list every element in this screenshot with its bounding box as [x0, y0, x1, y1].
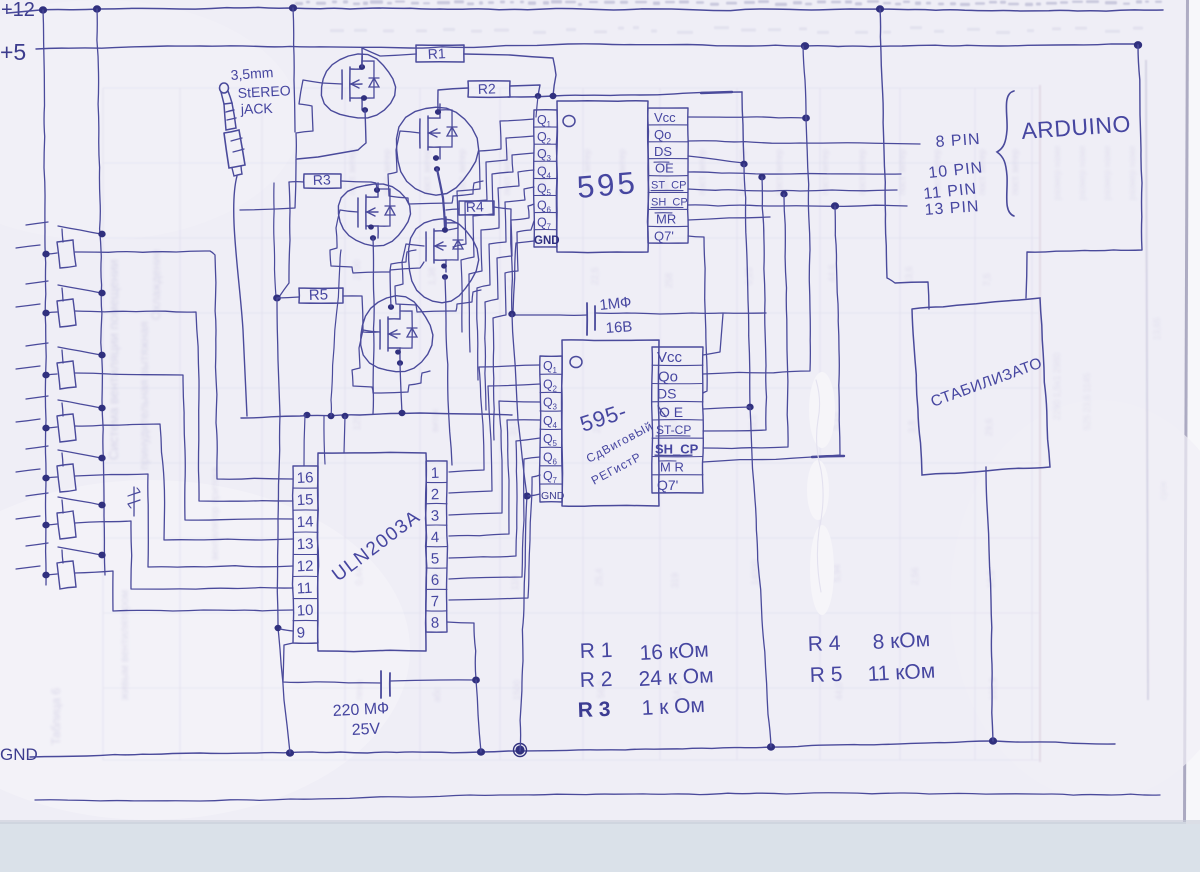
capacitor C1 1mF 16V	[586, 303, 588, 335]
svg-text:Q: Q	[543, 469, 553, 483]
wire +12 rail	[8, 7, 1163, 13]
svg-text:Q: Q	[537, 130, 547, 144]
junction Q2 source a	[433, 156, 438, 161]
wire U1 GND down	[513, 241, 534, 313]
junction unit 7 switch	[99, 552, 105, 558]
svg-text:220 МФ: 220 МФ	[332, 700, 389, 720]
svg-text:1МФ: 1МФ	[599, 294, 633, 314]
junction R5 left	[274, 295, 281, 301]
junction R1 node	[550, 93, 556, 98]
svg-text:Q: Q	[537, 164, 547, 178]
wire Q5 gate frame	[352, 330, 430, 393]
U3 left pin column 16..9	[293, 466, 319, 643]
svg-text:5: 5	[547, 188, 552, 197]
wire C2 to GND	[476, 680, 481, 752]
wire unit 2 to U3 pin 15	[75, 311, 293, 501]
resistor R1	[416, 45, 464, 62]
svg-text:8: 8	[431, 615, 440, 632]
junction Q4 source b	[442, 275, 447, 280]
wire U3 pin8 down	[447, 622, 476, 679]
junction on GND rail	[989, 738, 996, 744]
wire U1 Q5 staircase	[477, 187, 534, 380]
junction unit 7 bus A	[43, 572, 49, 578]
U1 right pin column	[648, 108, 689, 243]
svg-text:11: 11	[296, 580, 312, 598]
svg-text:вентилятор притока: вентилятор притока	[210, 467, 221, 560]
junction Q2 source b	[434, 167, 439, 172]
U3 right pin column 1..8	[426, 461, 448, 632]
wire U2 Q6 to ULN pin 6	[449, 457, 540, 579]
svg-text:3,5mm: 3,5mm	[230, 64, 274, 83]
wire left bus A	[43, 10, 46, 585]
junction unit 2 switch	[99, 290, 105, 296]
junction Q1 source a	[361, 96, 366, 101]
wire U1 Q3 staircase	[461, 153, 534, 332]
U2 pin-1 mark circle	[570, 357, 582, 368]
svg-text:1500: 1500	[512, 680, 522, 700]
svg-text:Q: Q	[537, 181, 547, 195]
wire U2 Q1 to ULN pin 1	[449, 365, 540, 472]
wire U2 Q4 to ULN pin 4	[449, 420, 540, 536]
wire Q1 drain up	[361, 48, 363, 67]
wire U2 GND stub	[528, 494, 540, 496]
wire Q4 source down	[445, 277, 452, 465]
wire R2 left to Q2 drain	[438, 88, 468, 112]
svg-text:Система вентиляции помещении: Система вентиляции помещении	[106, 260, 121, 460]
wire node to U1 Q1 pin	[536, 96, 538, 117]
junction on GND rail	[286, 750, 293, 756]
wire Q3 source to bus	[373, 238, 374, 414]
junction Q3 source a	[369, 225, 374, 229]
wire R2 right to node	[510, 85, 540, 96]
svg-text:R5: R5	[309, 286, 329, 304]
svg-text:размер нами: размер нами	[1102, 146, 1112, 200]
wire +12 down to Q1 frame	[293, 8, 295, 132]
transistor Q1 (MOSFET in circle)	[321, 54, 395, 118]
wire U1 ST_CP to Arduino 11PIN	[688, 189, 897, 191]
svg-text:Охлаждение: Охлаждение	[149, 249, 163, 320]
wire R5 left	[277, 297, 299, 298]
capacitor C2 220uF 25V	[380, 671, 382, 698]
U2 left pin column Q1-Q7,GND	[540, 356, 563, 502]
svg-text:пост. ветер: пост. ветер	[1010, 149, 1020, 195]
junction Q1 drain	[359, 65, 364, 70]
wire U2 Q3 to ULN pin 3	[449, 401, 540, 515]
junction on +5 rail	[801, 43, 808, 50]
wire Q1 frame to left	[240, 159, 296, 210]
connector output unit 1	[16, 222, 101, 268]
svg-text:MR: MR	[656, 211, 676, 226]
svg-text:DS: DS	[654, 144, 672, 159]
wire +5 to stabilizer	[1026, 45, 1142, 298]
wire Q3 gate frame	[330, 210, 416, 273]
wire GND rail	[30, 741, 1115, 757]
svg-text:6: 6	[547, 206, 552, 215]
svg-text:Q: Q	[543, 377, 553, 391]
svg-text:44,6: 44,6	[827, 264, 837, 282]
svg-text:Таблица 6: Таблица 6	[49, 688, 63, 745]
svg-text:R 4: R 4	[807, 632, 841, 656]
connector output unit 2	[16, 281, 101, 327]
svg-text:ST_CP: ST_CP	[651, 180, 686, 192]
wire U1 Q4 staircase	[469, 170, 534, 352]
svg-text:1 к Ом: 1 к Ом	[641, 694, 705, 720]
svg-text:258: 258	[664, 273, 674, 288]
svg-text:R3: R3	[313, 171, 332, 188]
wire DS node down	[744, 164, 750, 407]
junction C1 left	[509, 311, 515, 317]
wire R1 left	[362, 48, 416, 56]
svg-text:Q: Q	[537, 147, 547, 161]
svg-text:14: 14	[296, 513, 314, 531]
wire U2 Q5 to ULN pin 5	[449, 438, 540, 558]
svg-text:Q: Q	[537, 216, 547, 230]
connector output unit 5	[16, 446, 101, 492]
wire C1 left	[513, 314, 587, 316]
connector output unit 3	[16, 343, 101, 389]
svg-text:размер нами: размер нами	[1077, 146, 1087, 200]
svg-text:2700: 2700	[352, 260, 362, 280]
svg-text:8 кОм: 8 кОм	[872, 628, 931, 654]
wire Q1 source left	[297, 110, 366, 159]
wire unit 3 to U3 pin 14	[75, 373, 293, 520]
svg-text:13: 13	[296, 535, 314, 553]
svg-text:2,56: 2,56	[910, 567, 920, 585]
wire jack cable to source bus	[234, 176, 247, 416]
junction on source bus	[304, 412, 310, 417]
wire unit 5 to U3 pin 12	[75, 474, 293, 567]
wire U2 Vcc to C1	[703, 314, 723, 355]
junction C2 right	[473, 677, 480, 683]
wire bus to ULN top b	[324, 416, 325, 464]
wire left bus B	[97, 9, 105, 575]
wire U1 SH_CP to Arduino 13PIN	[688, 205, 907, 207]
op-amp U3 ULN2003A body	[317, 452, 426, 651]
transistor Q4 (MOSFET in circle)	[409, 217, 479, 303]
wire R5 node to GND	[277, 298, 290, 753]
svg-text:R 2: R 2	[579, 668, 612, 692]
svg-text:22,5: 22,5	[590, 267, 600, 285]
resistor R4	[459, 201, 494, 215]
wire U1 MR stub	[688, 217, 770, 220]
junction unit 1 switch	[99, 231, 105, 237]
op-amp U2 74HC595 shift register (bottom) body	[562, 340, 659, 506]
svg-text:R1: R1	[427, 45, 446, 62]
wire Q4 gate frame	[395, 244, 481, 312]
wire U3 pin9 stub	[280, 629, 293, 631]
svg-text:101,9: 101,9	[988, 677, 998, 700]
wire U1 Q0 to Arduino 8PIN	[688, 141, 920, 144]
wire R5 right to Q5 gate	[343, 296, 378, 332]
svg-text:15: 15	[296, 491, 314, 509]
svg-text:SH_CP: SH_CP	[651, 197, 688, 209]
svg-text:6: 6	[553, 458, 558, 467]
wire U1 Q2 staircase	[453, 136, 534, 247]
wire node down to DS dot	[742, 92, 744, 163]
svg-text:Q: Q	[543, 359, 553, 373]
svg-text:1: 1	[547, 120, 552, 129]
connector output unit 7	[16, 543, 101, 589]
wire U1 Q7' to U2 DS	[688, 236, 707, 393]
svg-text:2: 2	[431, 486, 440, 503]
junction on +12 rail	[289, 5, 296, 11]
transistor Q2 (MOSFET in circle)	[397, 104, 479, 195]
diode D1 small symbol	[133, 487, 135, 516]
svg-text:1: 1	[553, 366, 558, 375]
wire Q2 gate frame	[388, 131, 483, 204]
svg-text:22,2: 22,2	[748, 414, 758, 432]
junction Q5 drain	[388, 305, 393, 310]
wire +12 to stabilizer	[880, 9, 929, 309]
svg-text:7: 7	[553, 476, 558, 485]
transistor Q5 (MOSFET in circle)	[361, 296, 433, 372]
wire Q1 gate frame	[296, 80, 342, 158]
svg-text:9: 9	[296, 624, 305, 641]
wire Q5 drain up	[390, 262, 424, 307]
wire R3 left stub	[289, 181, 304, 183]
wire U2 Q7 to ULN pin 7	[449, 475, 540, 600]
svg-text:2: 2	[553, 384, 558, 393]
svg-text:пост. ветер: пост. ветер	[382, 149, 392, 195]
wire R1 right to node	[464, 54, 556, 96]
svg-text:StEREO: StEREO	[237, 82, 291, 101]
svg-text:пост. ветер: пост. ветер	[820, 149, 830, 195]
svg-text:jACK: jACK	[240, 100, 274, 117]
wire U2 Q2 to ULN pin 2	[449, 384, 540, 493]
junction R2 node	[535, 93, 541, 98]
svg-text:Q7': Q7'	[657, 477, 678, 493]
voltage stabilizer box	[912, 298, 1050, 475]
wire to U2 ST_CP	[703, 177, 767, 431]
svg-text:абс: абс	[432, 687, 442, 702]
svg-text:Qo: Qo	[658, 368, 678, 385]
junction unit 5 switch	[99, 455, 105, 461]
wire unit 1 to U3 pin 16	[75, 251, 293, 479]
wire U1 DS	[688, 156, 744, 163]
junction Q5 source b	[397, 361, 402, 366]
svg-text:+5: +5	[0, 39, 26, 65]
wire U1 OE to Arduino 10PIN	[688, 172, 901, 174]
svg-text:16 кОм: 16 кОм	[639, 638, 709, 665]
svg-text:Vcc: Vcc	[654, 110, 676, 125]
svg-text:25V: 25V	[351, 721, 381, 739]
wire Q2 source to Q4 drain	[437, 169, 445, 228]
wire to U2 SH_CP	[703, 194, 788, 449]
svg-text:1: 1	[431, 465, 440, 482]
wire +5 down to U1 node	[803, 46, 806, 118]
svg-text:118: 118	[510, 576, 520, 590]
svg-text:6: 6	[431, 572, 440, 589]
svg-text:пост. ветер: пост. ветер	[422, 149, 432, 195]
svg-text:пост. ветер: пост. ветер	[897, 149, 907, 195]
connector J1 3.5mm stereo jack	[220, 83, 246, 176]
junction unit 4 switch	[99, 405, 105, 411]
svg-text:595: 595	[576, 165, 640, 205]
junction Q3 drain	[374, 188, 379, 193]
wire bus to Q3 frame	[331, 250, 341, 416]
svg-text:24 к Ом: 24 к Ом	[638, 664, 714, 691]
wire GND middle vertical	[512, 314, 527, 751]
svg-text:Q7': Q7'	[654, 228, 674, 243]
svg-text:DS: DS	[657, 386, 676, 402]
resistor R3	[304, 174, 341, 188]
wire lower paper line	[35, 793, 1160, 801]
wire bus to ULN top	[304, 415, 305, 466]
wire R3 right to Q3	[341, 181, 371, 182]
junction unit 3 bus A	[43, 372, 49, 378]
svg-text:R 5: R 5	[809, 663, 842, 687]
wire R4 right down	[494, 207, 512, 314]
svg-text:Q: Q	[543, 396, 553, 410]
svg-text:4: 4	[547, 171, 552, 180]
junction SH_CP node	[831, 203, 838, 209]
wire U1 Vcc to +5 drop	[688, 117, 806, 118]
junction DS node	[741, 161, 747, 167]
junction on +12 rail	[39, 7, 46, 13]
wire U1 Q1 staircase	[448, 119, 534, 230]
junction on GND rail	[477, 749, 484, 755]
svg-text:пост. ветер: пост. ветер	[857, 149, 867, 195]
svg-text:размер нами: размер нами	[1127, 146, 1137, 200]
wire R4 left	[446, 209, 459, 210]
svg-text:7: 7	[547, 223, 552, 232]
svg-text:25,4: 25,4	[594, 568, 604, 586]
svg-text:2290 1,5x1 2980: 2290 1,5x1 2980	[1052, 353, 1062, 420]
junction Q3 source b	[370, 236, 375, 241]
junction Q2 drain	[435, 110, 440, 115]
transistor Q3 (MOSFET in circle)	[338, 183, 410, 246]
svg-text:GND: GND	[534, 235, 560, 247]
svg-text:16: 16	[296, 469, 314, 487]
connector output unit 4	[16, 396, 101, 442]
wire node line above U1	[508, 92, 742, 97]
junction on +12 rail	[93, 6, 100, 12]
wire unit 6 to U3 pin 11	[75, 521, 293, 589]
wire R3 down pair	[279, 182, 290, 297]
svg-text:Q: Q	[543, 414, 553, 428]
svg-text:525 23,6 1145: 525 23,6 1145	[1082, 373, 1092, 430]
svg-text:Q: Q	[543, 451, 553, 465]
svg-text:5: 5	[553, 439, 558, 448]
wire down to GND	[750, 407, 771, 747]
svg-text:Q: Q	[537, 199, 547, 213]
svg-text:виток: виток	[430, 409, 440, 432]
svg-text:5: 5	[431, 550, 440, 567]
svg-text:13,65: 13,65	[1152, 317, 1162, 340]
svg-text:2: 2	[547, 137, 552, 146]
junction unit 6 switch	[99, 502, 105, 508]
svg-text:125: 125	[352, 415, 362, 430]
junction on +12 rail	[876, 6, 883, 12]
junction unit 5 bus A	[43, 475, 49, 481]
wire U1 Q6 staircase	[485, 204, 534, 410]
op-amp U1 74HC595 shift register (top) body	[556, 101, 648, 253]
wire source bus	[241, 413, 512, 418]
svg-text:M R: M R	[660, 460, 684, 475]
wire +5 rail	[36, 44, 1140, 49]
svg-text:ST-CP: ST-CP	[656, 423, 691, 437]
junction Q4 drain	[442, 228, 447, 233]
junction on GND rail (ring)	[515, 745, 524, 754]
svg-text:Q: Q	[543, 432, 553, 446]
svg-text:принудительная вытяжная: принудительная вытяжная	[137, 321, 151, 470]
svg-text:живым вентилятором: живым вентилятором	[119, 590, 131, 700]
wire Q3 drain up	[371, 182, 377, 190]
junction on source bus	[328, 413, 334, 418]
svg-text:Q: Q	[537, 113, 547, 127]
wire Q5 source to bus	[400, 363, 402, 413]
wire stabilizer to GND	[986, 467, 993, 741]
svg-text:R2: R2	[478, 80, 497, 97]
junction on GND rail	[767, 744, 774, 750]
svg-text:7: 7	[431, 593, 440, 610]
svg-text:GND: GND	[541, 490, 565, 502]
svg-text:319: 319	[670, 573, 680, 588]
junction Q1 source b	[362, 108, 367, 113]
junction ST_CP node	[781, 191, 787, 197]
wire U2 OE stub	[703, 407, 750, 409]
U1 pin-1 mark circle	[563, 116, 575, 127]
wire to U2 MR a	[812, 206, 840, 457]
svg-text:10: 10	[296, 602, 314, 620]
svg-text:3: 3	[431, 508, 440, 525]
junction at ULN pin9 wire	[275, 625, 281, 630]
junction Q5 source a	[396, 350, 401, 354]
svg-text:пост. ветер: пост. ветер	[457, 149, 467, 195]
brace for Arduino pins	[997, 91, 1014, 216]
junction unit 4 bus A	[43, 425, 49, 431]
resistor R5	[299, 288, 343, 303]
svg-text:3,8: 3,8	[907, 420, 917, 433]
svg-text:16В: 16В	[605, 318, 633, 337]
svg-text:Qo: Qo	[654, 127, 671, 142]
junction unit 1 bus A	[43, 251, 49, 257]
svg-text:срок: срок	[1158, 481, 1168, 500]
junction on source bus	[342, 413, 348, 418]
wire C2 right	[390, 680, 476, 681]
junction +5 to U1	[803, 115, 810, 121]
junction on source bus	[399, 410, 405, 415]
svg-text:0,25: 0,25	[744, 267, 754, 285]
wire unit 7 to U3 pin 10	[75, 571, 293, 611]
wire C2 left	[283, 643, 381, 683]
junction on +5 rail	[1134, 42, 1141, 49]
svg-text:13,6: 13,6	[904, 266, 914, 284]
wire U1 Q7 staircase	[493, 221, 534, 440]
svg-text:3: 3	[547, 154, 552, 163]
svg-text:GND: GND	[0, 745, 38, 764]
wire unit 4 to U3 pin 13	[75, 424, 293, 540]
U2 right pin column	[652, 347, 704, 493]
svg-text:31,5: 31,5	[508, 418, 518, 436]
junction unit 6 bus A	[43, 522, 49, 528]
wire +5 node down to U2 Q0	[703, 118, 810, 374]
junction U2 GND	[524, 493, 531, 499]
svg-text:1,38: 1,38	[427, 267, 437, 285]
svg-text:SH_CP: SH_CP	[655, 441, 699, 456]
junction unit 3 switch	[99, 352, 105, 358]
junction OE node	[759, 174, 765, 180]
svg-text:3: 3	[553, 403, 558, 412]
U1 left pin column Q1-Q7,GND	[534, 110, 558, 247]
svg-text:размер нами: размер нами	[1052, 146, 1062, 200]
svg-text:7,5: 7,5	[982, 273, 992, 286]
junction Q4 source a	[442, 264, 447, 268]
junction unit 2 bus A	[43, 310, 49, 316]
svg-text:Vcc: Vcc	[657, 349, 683, 366]
svg-text:4: 4	[431, 529, 440, 546]
svg-text:OE: OE	[655, 161, 674, 176]
